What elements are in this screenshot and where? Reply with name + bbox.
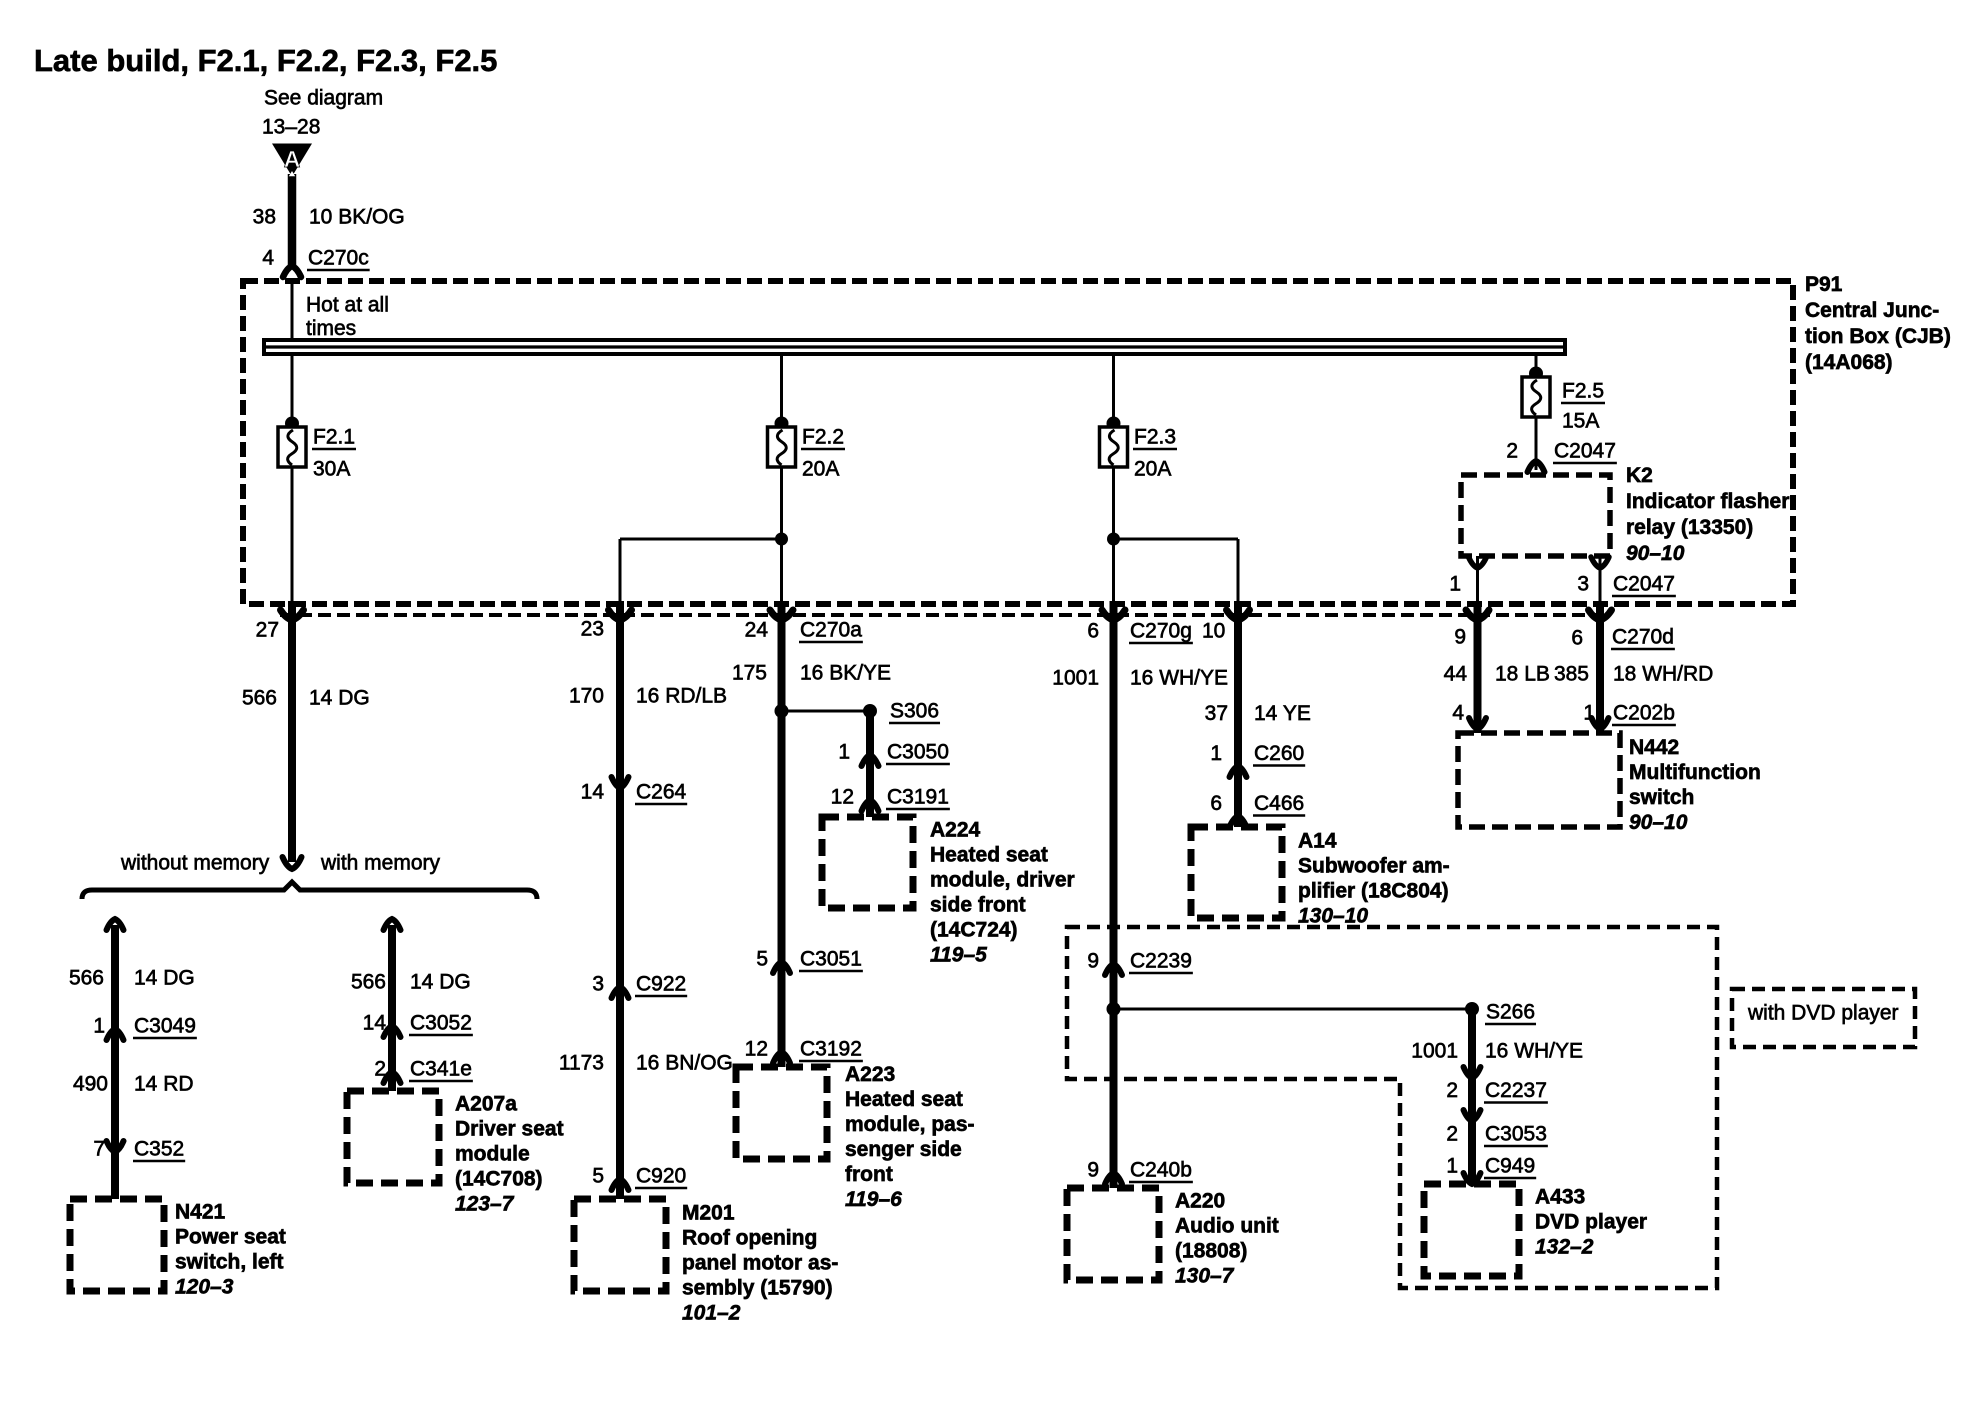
svg-text:16 RD/LB: 16 RD/LB (636, 685, 727, 708)
svg-text:(14C708): (14C708) (455, 1168, 543, 1191)
svg-text:F2.3: F2.3 (1134, 426, 1176, 449)
svg-text:130–10: 130–10 (1298, 905, 1368, 928)
svg-text:123–7: 123–7 (455, 1193, 515, 1216)
svg-text:F2.2: F2.2 (802, 426, 844, 449)
svg-text:(14A068): (14A068) (1805, 351, 1893, 374)
svg-text:37: 37 (1205, 702, 1228, 725)
svg-text:7: 7 (93, 1138, 105, 1161)
svg-text:Subwoofer am-: Subwoofer am- (1298, 855, 1450, 878)
svg-text:15A: 15A (1562, 410, 1599, 433)
svg-text:C922: C922 (636, 973, 686, 996)
svg-text:module, driver: module, driver (930, 869, 1075, 892)
svg-text:1: 1 (838, 741, 850, 764)
svg-text:A207a: A207a (455, 1093, 517, 1116)
svg-text:A223: A223 (845, 1063, 895, 1086)
svg-text:1: 1 (1210, 742, 1222, 765)
svg-text:27: 27 (256, 619, 279, 642)
svg-text:119–5: 119–5 (930, 944, 987, 967)
svg-text:14 DG: 14 DG (309, 687, 370, 710)
svg-text:C920: C920 (636, 1165, 686, 1188)
svg-text:13–28: 13–28 (262, 116, 320, 139)
svg-text:385: 385 (1554, 663, 1589, 686)
svg-text:C466: C466 (1254, 792, 1304, 815)
svg-text:times: times (306, 317, 356, 340)
svg-text:module: module (455, 1143, 530, 1166)
svg-text:A224: A224 (930, 819, 981, 842)
svg-text:Hot at all: Hot at all (306, 294, 389, 317)
svg-text:C3049: C3049 (134, 1015, 196, 1038)
svg-text:P91: P91 (1805, 273, 1843, 296)
svg-text:with DVD player: with DVD player (1747, 1002, 1899, 1025)
svg-text:A14: A14 (1298, 830, 1337, 853)
svg-text:2: 2 (1506, 440, 1518, 463)
svg-text:24: 24 (745, 619, 769, 642)
svg-text:A: A (284, 146, 301, 172)
svg-text:front: front (845, 1163, 893, 1186)
svg-text:C2047: C2047 (1554, 440, 1616, 463)
svg-text:side front: side front (930, 894, 1026, 917)
svg-text:14 DG: 14 DG (134, 967, 195, 990)
svg-text:119–6: 119–6 (845, 1188, 902, 1211)
svg-text:C2239: C2239 (1130, 950, 1192, 973)
svg-text:3: 3 (1577, 573, 1589, 596)
svg-text:C270c: C270c (308, 247, 369, 270)
svg-text:C240b: C240b (1130, 1159, 1192, 1182)
svg-text:S266: S266 (1486, 1001, 1535, 1024)
svg-text:130–7: 130–7 (1175, 1265, 1235, 1288)
svg-text:M201: M201 (682, 1202, 735, 1225)
svg-text:10: 10 (1202, 620, 1225, 643)
svg-text:DVD player: DVD player (1535, 1211, 1647, 1234)
svg-text:Multifunction: Multifunction (1629, 761, 1761, 784)
svg-text:14 DG: 14 DG (410, 971, 471, 994)
svg-text:20A: 20A (1134, 458, 1171, 481)
svg-text:566: 566 (242, 687, 277, 710)
svg-text:18 LB: 18 LB (1495, 663, 1550, 686)
svg-text:14: 14 (363, 1012, 387, 1035)
svg-text:Power seat: Power seat (175, 1226, 286, 1249)
svg-text:See diagram: See diagram (264, 87, 383, 110)
svg-text:C270a: C270a (800, 619, 862, 642)
svg-text:senger side: senger side (845, 1138, 962, 1161)
svg-text:Heated seat: Heated seat (930, 844, 1048, 867)
svg-text:14 YE: 14 YE (1254, 702, 1311, 725)
svg-text:14: 14 (581, 781, 605, 804)
svg-text:16 BK/YE: 16 BK/YE (800, 662, 891, 685)
svg-text:panel motor as-: panel motor as- (682, 1252, 838, 1275)
svg-text:1001: 1001 (1411, 1040, 1458, 1063)
svg-text:C3050: C3050 (887, 741, 949, 764)
svg-text:with memory: with memory (320, 852, 441, 875)
svg-text:1001: 1001 (1052, 667, 1099, 690)
svg-text:Audio unit: Audio unit (1175, 1215, 1279, 1238)
svg-text:6: 6 (1571, 627, 1583, 650)
svg-text:C352: C352 (134, 1138, 184, 1161)
svg-text:C202b: C202b (1613, 702, 1675, 725)
svg-text:4: 4 (1452, 702, 1464, 725)
svg-text:9: 9 (1087, 1159, 1099, 1182)
svg-text:566: 566 (351, 971, 386, 994)
svg-text:module, pas-: module, pas- (845, 1113, 975, 1136)
svg-text:C3051: C3051 (800, 948, 862, 971)
svg-text:9: 9 (1087, 950, 1099, 973)
svg-text:Indicator flasher: Indicator flasher (1626, 490, 1789, 513)
svg-text:12: 12 (831, 786, 854, 809)
svg-text:132–2: 132–2 (1535, 1236, 1594, 1259)
svg-text:(14C724): (14C724) (930, 919, 1018, 942)
svg-text:101–2: 101–2 (682, 1302, 741, 1325)
svg-text:Heated seat: Heated seat (845, 1088, 963, 1111)
svg-text:C3053: C3053 (1485, 1123, 1547, 1146)
svg-text:23: 23 (581, 618, 604, 641)
svg-text:C3052: C3052 (410, 1012, 472, 1035)
svg-text:Driver seat: Driver seat (455, 1118, 564, 1141)
svg-text:20A: 20A (802, 458, 839, 481)
svg-text:C2047: C2047 (1613, 573, 1675, 596)
svg-text:without memory: without memory (120, 852, 270, 875)
svg-text:C3191: C3191 (887, 786, 949, 809)
svg-text:1: 1 (1446, 1155, 1458, 1178)
svg-text:A433: A433 (1535, 1186, 1585, 1209)
svg-text:1: 1 (93, 1015, 105, 1038)
svg-text:K2: K2 (1626, 464, 1653, 487)
svg-text:566: 566 (69, 967, 104, 990)
svg-text:N421: N421 (175, 1201, 226, 1224)
svg-text:Roof opening: Roof opening (682, 1227, 817, 1250)
svg-text:10 BK/OG: 10 BK/OG (309, 206, 405, 229)
svg-text:N442: N442 (1629, 736, 1679, 759)
svg-text:Central Junc-: Central Junc- (1805, 299, 1939, 322)
svg-text:sembly (15790): sembly (15790) (682, 1277, 833, 1300)
svg-text:6: 6 (1087, 620, 1099, 643)
svg-text:relay (13350): relay (13350) (1626, 516, 1753, 539)
svg-text:16 WH/YE: 16 WH/YE (1485, 1040, 1583, 1063)
svg-text:175: 175 (732, 662, 767, 685)
svg-text:(18808): (18808) (1175, 1240, 1247, 1263)
svg-text:1: 1 (1449, 573, 1461, 596)
svg-text:switch: switch (1629, 786, 1694, 809)
svg-text:tion Box (CJB): tion Box (CJB) (1805, 325, 1951, 348)
svg-text:switch, left: switch, left (175, 1251, 284, 1274)
svg-text:C341e: C341e (410, 1058, 472, 1081)
svg-text:5: 5 (592, 1165, 604, 1188)
svg-text:Late build, F2.1, F2.2, F2.3,: Late build, F2.1, F2.2, F2.3, F2.5 (34, 43, 497, 78)
svg-text:4: 4 (262, 247, 274, 270)
svg-text:44: 44 (1444, 663, 1468, 686)
svg-text:90–10: 90–10 (1626, 542, 1685, 565)
svg-text:C270d: C270d (1612, 626, 1674, 649)
svg-text:5: 5 (756, 948, 768, 971)
svg-text:C270g: C270g (1130, 620, 1192, 643)
svg-text:16 BN/OG: 16 BN/OG (636, 1052, 733, 1075)
svg-text:F2.1: F2.1 (313, 426, 355, 449)
svg-text:C2237: C2237 (1485, 1079, 1547, 1102)
svg-text:30A: 30A (313, 458, 350, 481)
svg-text:C260: C260 (1254, 742, 1304, 765)
svg-text:120–3: 120–3 (175, 1276, 234, 1299)
svg-text:C3192: C3192 (800, 1038, 862, 1061)
svg-text:F2.5: F2.5 (1562, 380, 1604, 403)
svg-text:A220: A220 (1175, 1190, 1225, 1213)
svg-text:170: 170 (569, 685, 604, 708)
svg-text:C949: C949 (1485, 1155, 1535, 1178)
svg-text:plifier (18C804): plifier (18C804) (1298, 880, 1449, 903)
svg-text:38: 38 (253, 206, 276, 229)
svg-text:C264: C264 (636, 781, 687, 804)
svg-text:2: 2 (1446, 1079, 1458, 1102)
svg-text:9: 9 (1454, 626, 1466, 649)
svg-text:90–10: 90–10 (1629, 811, 1688, 834)
svg-text:18 WH/RD: 18 WH/RD (1613, 663, 1713, 686)
svg-text:14 RD: 14 RD (134, 1073, 194, 1096)
svg-text:16 WH/YE: 16 WH/YE (1130, 667, 1228, 690)
svg-text:2: 2 (1446, 1123, 1458, 1146)
svg-text:12: 12 (745, 1038, 768, 1061)
svg-text:1173: 1173 (559, 1052, 604, 1075)
svg-text:6: 6 (1210, 792, 1222, 815)
svg-text:S306: S306 (890, 700, 939, 723)
svg-text:3: 3 (592, 973, 604, 996)
svg-text:490: 490 (73, 1073, 108, 1096)
